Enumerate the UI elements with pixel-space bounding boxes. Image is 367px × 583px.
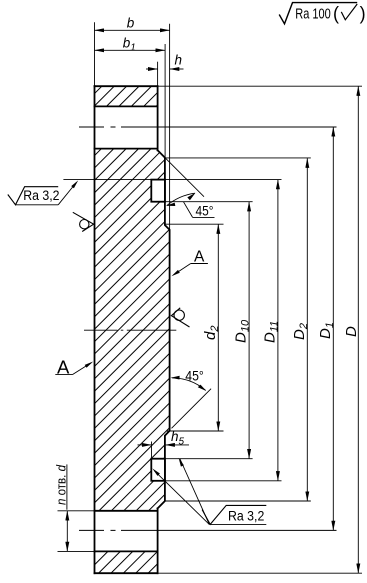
svg-text:А: А xyxy=(194,248,205,265)
svg-text:n отв. d: n отв. d xyxy=(53,464,68,505)
svg-text:h: h xyxy=(175,53,183,68)
svg-text:D10: D10 xyxy=(233,319,252,343)
svg-text:D1: D1 xyxy=(317,322,336,339)
svg-text:D11: D11 xyxy=(262,321,281,343)
svg-text:Ra 3,2: Ra 3,2 xyxy=(228,509,264,524)
svg-text:Ra 3,2: Ra 3,2 xyxy=(23,188,59,203)
svg-text:b1: b1 xyxy=(123,36,136,54)
svg-text:d2: d2 xyxy=(202,326,221,340)
svg-text:D: D xyxy=(343,326,360,337)
svg-text:D2: D2 xyxy=(291,323,310,340)
svg-text:45°: 45° xyxy=(196,203,214,219)
svg-text:А: А xyxy=(57,357,70,378)
svg-text:): ) xyxy=(360,4,366,24)
svg-text:Ra 100: Ra 100 xyxy=(295,7,331,23)
svg-text:b: b xyxy=(127,16,135,31)
svg-text:(: ( xyxy=(333,4,339,24)
svg-text:45°: 45° xyxy=(185,368,204,384)
